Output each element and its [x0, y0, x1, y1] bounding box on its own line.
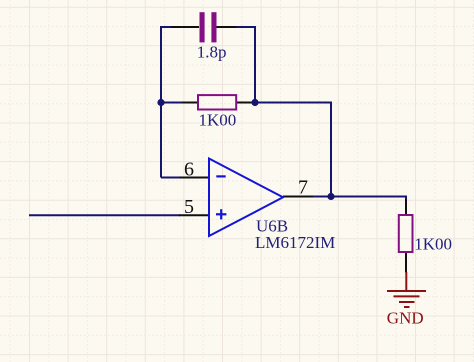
- wire: output net to load resistor: [313, 197, 406, 201]
- op-amp U6B: [179, 159, 313, 237]
- wire: inverting input (pin 6): [161, 177, 180, 179]
- wire: top-left net from capacitor to inverting input (vertical): [161, 27, 180, 178]
- svg-text:1K00: 1K00: [414, 235, 452, 254]
- wire: non-inverting input (pin 5): [29, 214, 180, 216]
- resistor R2 (load): [399, 199, 413, 273]
- wire: feedback resistor left segment: [161, 102, 183, 104]
- junction dot (output node): [327, 193, 334, 200]
- wire: capacitor right to resistor right junction (vertical): [236, 27, 255, 103]
- resistor R1 (feedback): [182, 95, 251, 109]
- svg-text:6: 6: [184, 158, 194, 180]
- wire: feedback right junction to output corner: [250, 103, 331, 197]
- junction dot (right feedback node): [251, 99, 258, 106]
- svg-text:1K00: 1K00: [199, 111, 237, 130]
- junction dot (left feedback node): [157, 99, 164, 106]
- svg-text:5: 5: [184, 196, 194, 218]
- svg-text:7: 7: [298, 177, 308, 199]
- svg-text:GND: GND: [387, 308, 424, 327]
- power port GND: [387, 272, 426, 307]
- svg-text:LM6172IM: LM6172IM: [255, 233, 335, 252]
- capacitor C1: [171, 12, 237, 42]
- svg-text:1.8p: 1.8p: [197, 43, 227, 62]
